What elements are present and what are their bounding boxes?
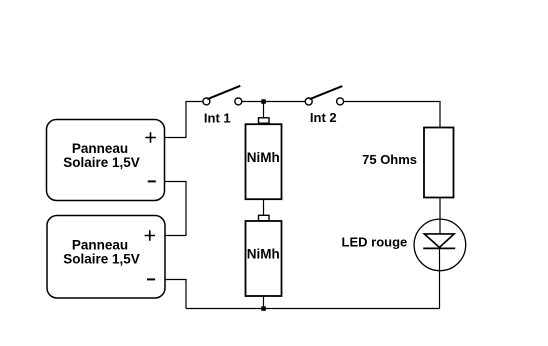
wire battery G2 to bottom rail: [263, 296, 265, 309]
wire LED D1 to bottom rail: [439, 248, 441, 308]
svg-text:Int 1: Int 1: [204, 110, 231, 125]
LED D1 anode triangle: [424, 234, 454, 248]
node junction bottom: [261, 306, 266, 311]
wire Int1 to Int2: [242, 101, 305, 103]
wire junction to battery G1: [263, 102, 265, 118]
svg-text:Solaire 1,5V: Solaire 1,5V: [63, 155, 140, 170]
wire bottom rail: [186, 308, 440, 310]
battery G2 terminal nub: [259, 215, 270, 220]
battery G2: [246, 221, 282, 296]
label Int 2: [310, 110, 337, 125]
plus sign panel B2: [145, 230, 156, 241]
label G1 NiMh: [247, 150, 280, 165]
plus sign panel B1: [145, 132, 156, 143]
label B2 "Panneau Solaire 1,5V": [63, 237, 140, 266]
svg-text:Int 2: Int 2: [310, 110, 337, 125]
svg-text:Solaire 1,5V: Solaire 1,5V: [63, 252, 140, 267]
minus sign panel B2: [147, 278, 155, 280]
wire battery G1 to battery G2: [263, 199, 265, 215]
svg-text:Panneau: Panneau: [72, 237, 128, 252]
resistor R1: [424, 128, 454, 198]
svg-text:Panneau: Panneau: [72, 141, 128, 156]
svg-text:NiMh: NiMh: [247, 150, 280, 165]
solar panel B2: [47, 216, 165, 299]
wire panel B1 + to switch Int1: [165, 102, 204, 138]
wire Int2 to resistor R1: [344, 102, 440, 128]
label R1 "75 Ohms": [362, 152, 417, 167]
wire panel B2 - to bottom rail: [165, 280, 186, 309]
LED D1 circle: [414, 219, 466, 271]
wire panel B1 - to panel B2 +: [165, 182, 187, 236]
svg-text:LED rouge: LED rouge: [342, 235, 408, 250]
LED D1 cathode bar: [423, 247, 455, 249]
label Int 1: [204, 110, 231, 125]
switch Int2: [305, 86, 343, 105]
node junction top: [261, 99, 266, 104]
wire resistor R1 to LED D1: [439, 198, 441, 234]
label G2 NiMh: [247, 247, 280, 262]
label B1 "Panneau Solaire 1,5V": [63, 141, 140, 170]
svg-text:75 Ohms: 75 Ohms: [362, 152, 417, 167]
svg-text:NiMh: NiMh: [247, 247, 280, 262]
battery G1: [246, 124, 282, 199]
solar panel B1: [47, 120, 165, 201]
battery G1 terminal nub: [259, 118, 270, 123]
switch Int1: [203, 86, 242, 105]
minus sign panel B1: [148, 180, 156, 182]
label D1 "LED rouge": [342, 235, 408, 250]
